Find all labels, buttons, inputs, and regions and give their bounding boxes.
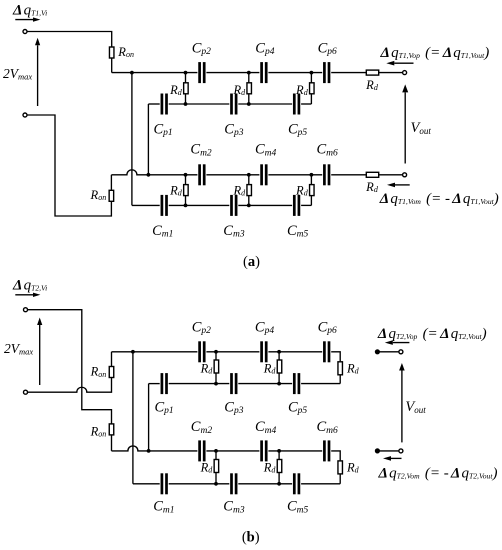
capacitor Cm3 (a): [230, 195, 237, 216]
wire m-top rail segment 2 (b): [206, 450, 259, 452]
wire Rd link m node1 (a): [185, 175, 187, 206]
wire p-bottom left to m-top rail (a): [147, 104, 149, 175]
wire p-top rail segment 3 (a): [268, 72, 322, 74]
resistor Rd p node1 (a): [184, 83, 189, 94]
svg-text:Cp5: Cp5: [288, 399, 307, 416]
wire p-top node A to m-bottom rail (a): [131, 73, 133, 206]
wire Rd link p node1 (a): [185, 73, 187, 104]
resistor Ron lower (a): [109, 190, 114, 201]
wire m-bottom rail segment 3 (b): [238, 483, 292, 485]
resistor Ron lower (b): [109, 424, 114, 435]
wire Ron lower to m-top rail (b): [111, 435, 113, 451]
arrow 2Vmax voltage (a): [35, 38, 40, 106]
wire input V+ down leg (b): [28, 310, 112, 424]
svg-text:Cp1: Cp1: [154, 121, 173, 138]
resistor Rd p node3 (a): [310, 83, 315, 94]
svg-text:Cp2: Cp2: [192, 40, 211, 57]
wire Rd right end to m-bottom (b): [339, 474, 341, 484]
junction m-bottom node 2 (a): [247, 204, 251, 208]
terminal input V+ (b): [24, 308, 28, 312]
wire Rd right end to p-bottom (b): [339, 375, 341, 384]
junction m-top node 1 (b): [214, 449, 218, 453]
svg-text:Rd: Rd: [295, 183, 309, 197]
wire probe Vom lead (b): [377, 450, 398, 452]
svg-text:ΔqT1,Vi: ΔqT1,Vi: [12, 3, 47, 19]
junction m-top node 0 (b): [147, 449, 151, 453]
wire Rd link p node3 (a): [310, 73, 312, 104]
wire m-top rail segment 3 (b): [268, 450, 322, 452]
svg-text:Cm2: Cm2: [191, 419, 213, 436]
wire m-bottom rail segment 2 (b): [169, 483, 230, 485]
wire Ron upper to p-top rail (b): [111, 352, 113, 366]
junction p-top node 1 (a): [184, 71, 188, 75]
wire p-top rail segment 2 (b): [206, 351, 259, 353]
svg-text:ΔqT1,Vop (=ΔqT1,Vout): ΔqT1,Vop (=ΔqT1,Vout): [380, 45, 490, 61]
arrow Vout voltage (a): [402, 84, 408, 163]
svg-text:Rd: Rd: [200, 362, 214, 376]
capacitor Cm1 (a): [161, 195, 168, 216]
resistor Rd m node3 (a): [310, 185, 315, 196]
resistor Rd output upper (a): [366, 70, 378, 75]
svg-text:Cm6: Cm6: [317, 142, 339, 159]
wire Rd link p node2 (a): [248, 73, 250, 104]
capacitor Cm4 (a): [260, 164, 267, 185]
wire p-top rail segment 3 (b): [268, 351, 322, 353]
svg-text:Cp6: Cp6: [318, 319, 337, 336]
capacitor Cm6 (b): [323, 440, 330, 461]
svg-text:Ron: Ron: [90, 365, 107, 379]
arrow 2Vmax voltage (b): [37, 318, 42, 386]
resistor Rd m node1 (a): [184, 185, 189, 196]
svg-text:ΔqT2,Vi: ΔqT2,Vi: [12, 278, 47, 294]
junction p-bottom node 2 (a): [247, 102, 251, 106]
resistor Rd p right end (b): [338, 362, 343, 375]
capacitor Cm2 (b): [198, 440, 205, 461]
wire m-bottom rail segment 2 (a): [169, 204, 230, 206]
wire m-bottom rail (a): [132, 204, 160, 206]
svg-text:Cp4: Cp4: [255, 319, 274, 336]
svg-text:(a): (a): [243, 254, 260, 270]
capacitor Cp4 (a): [260, 62, 267, 83]
resistor Rd m right end (b): [338, 461, 343, 474]
svg-text:Vout: Vout: [411, 120, 432, 136]
wire output Rd to terminal Vom (a): [379, 174, 403, 176]
capacitor Cp5 (b): [293, 373, 300, 394]
junction m-top node 3 (a): [310, 173, 314, 177]
svg-text:Rd: Rd: [232, 83, 246, 97]
svg-text:Rd: Rd: [263, 461, 277, 475]
wire m-top rail right end down (b): [331, 451, 340, 461]
svg-text:Cp2: Cp2: [192, 319, 211, 336]
wire p-bottom rail (a): [148, 103, 159, 105]
capacitor Cm5 (b): [293, 473, 300, 494]
svg-text:Rd: Rd: [346, 461, 360, 475]
wire p-bottom rail segment 2 (b): [169, 383, 230, 385]
wire m-top rail with crossover hop (a): [111, 170, 197, 175]
wire input V+ to Ron (a): [27, 32, 111, 47]
svg-text:Cp1: Cp1: [155, 399, 174, 416]
wire output Rd to terminal Vop (a): [379, 72, 403, 74]
resistor Ron upper (b): [109, 367, 114, 378]
svg-text:2Vmax: 2Vmax: [3, 66, 32, 82]
capacitor Cm3 (b): [230, 473, 237, 494]
capacitor Cm6 (a): [323, 164, 330, 185]
svg-text:ΔqT1,Vom (= -ΔqT1,Vout): ΔqT1,Vom (= -ΔqT1,Vout): [379, 191, 499, 207]
svg-text:Ron: Ron: [90, 188, 107, 202]
wire p-top rail segment 2 (a): [206, 72, 259, 74]
resistor Ron upper (a): [109, 47, 114, 58]
wire m-bottom rail (b): [133, 483, 160, 485]
terminal output Vop (a): [403, 71, 407, 75]
svg-text:Rd: Rd: [169, 183, 183, 197]
svg-text:Rd: Rd: [346, 362, 360, 376]
capacitor Cp3 (a): [230, 94, 237, 115]
resistor Rd p node2 (a): [247, 83, 252, 94]
wire m-top rail to output Rd (a): [331, 174, 366, 176]
svg-text:2Vmax: 2Vmax: [4, 341, 33, 357]
junction p-bottom node 2 (b): [277, 382, 281, 386]
wire Rd link m node3 (a): [310, 175, 312, 206]
junction m-top node 1 (a): [184, 173, 188, 177]
wire Rd link m node1 (b): [215, 451, 217, 484]
svg-text:Cm3: Cm3: [223, 223, 245, 240]
svg-text:Rd: Rd: [295, 83, 309, 97]
arrow output charge direction Vop (b): [385, 340, 410, 345]
arrow output charge direction Vop (a): [386, 61, 413, 66]
junction p-top node 2 (b): [277, 350, 281, 354]
wire m-bottom rail to Rd node3 (a): [301, 204, 311, 206]
capacitor Cm2 (a): [198, 164, 205, 185]
wire input V- with crossover hop (b): [28, 378, 112, 392]
resistor Rd m node1 (b): [214, 460, 219, 473]
svg-text:Cm4: Cm4: [255, 419, 277, 436]
svg-text:Cp3: Cp3: [224, 399, 243, 416]
wire p-bottom rail segment 3 (a): [238, 103, 292, 105]
capacitor Cp6 (a): [323, 62, 330, 83]
wire p-bottom rail segment 3 (b): [238, 383, 292, 385]
wire probe Vop lead (b): [377, 351, 398, 353]
svg-text:Rd: Rd: [200, 461, 214, 475]
capacitor Cp3 (b): [230, 373, 237, 394]
svg-text:Cm1: Cm1: [152, 223, 173, 240]
wire p-top rail to output Rd (a): [331, 72, 366, 74]
resistor Rd p node1 (b): [214, 360, 219, 373]
svg-text:ΔqT2,Vop (=ΔqT2,Vout): ΔqT2,Vop (=ΔqT2,Vout): [377, 326, 487, 342]
svg-text:Rd: Rd: [263, 362, 277, 376]
wire p-bottom rail to Rd node3 (a): [301, 103, 311, 105]
capacitor Cm1 (b): [161, 473, 168, 494]
svg-text:Cp4: Cp4: [255, 40, 274, 57]
svg-text:Rd: Rd: [232, 183, 246, 197]
svg-text:ΔqT2,Vom (= -ΔqT2,Vout): ΔqT2,Vom (= -ΔqT2,Vout): [378, 466, 498, 482]
junction p-top node 1 (b): [214, 350, 218, 354]
junction m-top node 0 (a): [147, 173, 151, 177]
capacitor Cp6 (b): [323, 341, 330, 362]
wire p-bottom rail (b): [149, 383, 160, 385]
capacitor Cm5 (a): [293, 195, 300, 216]
wire p-bottom left to m-top rail (b): [148, 384, 150, 451]
junction p-bottom node 1 (a): [184, 102, 188, 106]
wire Ron to p-top rail (a): [111, 58, 113, 72]
arrow Vout voltage (b): [399, 363, 405, 442]
svg-text:Vout: Vout: [405, 399, 426, 415]
terminal input V+ (a): [23, 30, 27, 34]
junction p-bottom node 1 (b): [214, 382, 218, 386]
wire input V- to Ron lower (a): [27, 115, 111, 216]
svg-text:Cp3: Cp3: [224, 121, 243, 138]
svg-text:Cp5: Cp5: [288, 121, 307, 138]
junction m-bottom node 1 (b): [214, 482, 218, 486]
svg-text:Cm6: Cm6: [317, 419, 339, 436]
terminal output Vom (a): [403, 173, 407, 177]
arrow input current direction (a): [15, 17, 40, 21]
resistor Rd output lower (a): [366, 172, 378, 177]
capacitor Cp1 (b): [161, 373, 168, 394]
svg-text:Cm5: Cm5: [287, 499, 309, 516]
wire m-top rail segment 3 (a): [268, 174, 322, 176]
capacitor Cp4 (b): [260, 341, 267, 362]
wire p-top node B to m-bottom rail (b): [132, 352, 134, 484]
wire m-top rail segment 2 (a): [206, 174, 259, 176]
resistor Rd m node2 (a): [247, 185, 252, 196]
capacitor Cp2 (b): [198, 341, 205, 362]
terminal output Vop (b): [399, 350, 403, 354]
svg-text:Ron: Ron: [117, 45, 134, 59]
svg-text:(b): (b): [242, 530, 260, 546]
capacitor Cp2 (a): [198, 62, 205, 83]
svg-text:Rd: Rd: [169, 83, 183, 97]
junction p-top node A (a): [130, 71, 134, 75]
capacitor Cm4 (b): [260, 440, 267, 461]
terminal input V- (a): [23, 113, 27, 117]
wire p-top rail segment 1 (b): [112, 351, 198, 353]
junction m-bottom node 2 (b): [277, 482, 281, 486]
junction m-top node 2 (b): [277, 449, 281, 453]
node output probe Vom (b): [375, 448, 380, 453]
wire p-bottom rail segment 2 (a): [169, 103, 230, 105]
wire Rd link m node2 (b): [278, 451, 280, 484]
resistor Rd m node2 (b): [277, 460, 282, 473]
svg-text:Cm2: Cm2: [190, 142, 212, 159]
wire m-bottom rail to right end (b): [301, 483, 340, 485]
junction m-bottom node 1 (a): [184, 204, 188, 208]
terminal output Vom (b): [399, 449, 403, 453]
wire m-bottom rail segment 3 (a): [238, 204, 292, 206]
arrow input current direction (b): [15, 293, 40, 297]
wire m-top rail with crossover hop (b): [112, 446, 198, 451]
wire Rd link m node2 (a): [248, 175, 250, 206]
capacitor Cp1 (a): [161, 94, 168, 115]
svg-text:Cp6: Cp6: [318, 40, 337, 57]
terminal input V- (b): [24, 390, 28, 394]
node output probe Vop (b): [375, 349, 380, 354]
svg-text:Cm1: Cm1: [153, 499, 174, 516]
svg-text:Rd: Rd: [365, 180, 379, 194]
svg-text:Rd: Rd: [365, 78, 379, 92]
resistor Rd p node2 (b): [277, 360, 282, 373]
wire Rd link p node1 (b): [215, 352, 217, 384]
capacitor Cp5 (a): [293, 94, 300, 115]
svg-text:Cm3: Cm3: [223, 499, 245, 516]
arrow output charge direction Vom (a): [387, 183, 410, 188]
wire p-bottom rail to right end (b): [301, 383, 340, 385]
junction m-top node 2 (a): [247, 173, 251, 177]
svg-text:Ron: Ron: [90, 424, 107, 438]
wire p-top rail right end down (b): [331, 352, 340, 362]
junction p-top node 2 (a): [247, 71, 251, 75]
junction p-top node B (b): [131, 350, 135, 354]
wire Ron lower to m-top rail (a): [110, 175, 112, 190]
wire Rd link p node2 (b): [278, 352, 280, 384]
wire p-top rail segment 1 (a): [112, 72, 198, 74]
svg-text:Cm5: Cm5: [287, 223, 309, 240]
junction p-top node 3 (a): [310, 71, 314, 75]
svg-text:Cm4: Cm4: [255, 142, 277, 159]
arrow output charge direction Vom (b): [383, 456, 402, 461]
